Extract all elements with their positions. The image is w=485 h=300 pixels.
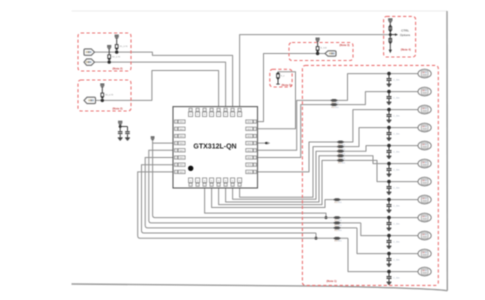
svg-text:GTX312L-QN: GTX312L-QN xyxy=(193,143,236,150)
svg-text:C_10n: C_10n xyxy=(393,80,400,82)
svg-text:C_10n: C_10n xyxy=(393,260,400,262)
svg-text:1: 1 xyxy=(254,136,255,138)
svg-text:SEG: SEG xyxy=(247,136,252,138)
svg-text:R0_4.7K: R0_4.7K xyxy=(105,95,114,97)
svg-text:C_10n: C_10n xyxy=(393,134,400,136)
svg-text:3: 3 xyxy=(175,150,176,152)
svg-text:SEG: SEG xyxy=(247,143,252,145)
svg-text:1: 1 xyxy=(254,150,255,152)
svg-text:3: 3 xyxy=(175,143,176,145)
svg-text:C_10n: C_10n xyxy=(393,242,400,244)
svg-text:R_0: R_0 xyxy=(281,76,286,78)
svg-text:1: 1 xyxy=(254,172,255,174)
svg-text:(Note 1): (Note 1) xyxy=(327,279,337,283)
svg-text:SEG: SEG xyxy=(179,143,184,145)
svg-text:(Note 4): (Note 4) xyxy=(401,48,411,52)
svg-text:C_10n: C_10n xyxy=(393,116,400,118)
svg-text:1: 1 xyxy=(218,185,219,187)
svg-text:1K0: 1K0 xyxy=(335,107,338,109)
svg-text:3: 3 xyxy=(175,129,176,131)
svg-text:C_10n: C_10n xyxy=(393,98,400,100)
svg-text:(Note 3): (Note 3) xyxy=(340,43,350,47)
svg-text:R2_4.7K: R2_4.7K xyxy=(112,56,121,58)
svg-text:SEG: SEG xyxy=(247,165,252,167)
svg-text:SEG: SEG xyxy=(247,129,252,131)
svg-text:1: 1 xyxy=(197,185,198,187)
svg-text:C_10n: C_10n xyxy=(393,224,400,226)
svg-text:2: 2 xyxy=(190,110,191,112)
svg-text:1: 1 xyxy=(254,129,255,131)
svg-text:R_10K: R_10K xyxy=(320,47,327,49)
svg-text:1K0: 1K0 xyxy=(342,163,345,165)
svg-text:SEG: SEG xyxy=(247,122,252,124)
svg-text:1K0: 1K0 xyxy=(338,241,341,243)
svg-text:1K0: 1K0 xyxy=(338,202,341,204)
svg-text:(Note 5): (Note 5) xyxy=(282,83,292,87)
svg-text:R1_4.7K: R1_4.7K xyxy=(120,46,129,48)
svg-text:SEG: SEG xyxy=(179,129,184,131)
svg-text:1: 1 xyxy=(254,143,255,145)
svg-text:SEG: SEG xyxy=(179,136,184,138)
svg-text:1: 1 xyxy=(225,185,226,187)
svg-text:C_10n: C_10n xyxy=(393,170,400,172)
svg-text:1: 1 xyxy=(232,185,233,187)
svg-text:1: 1 xyxy=(211,185,212,187)
svg-text:C_10n: C_10n xyxy=(393,206,400,208)
svg-text:2: 2 xyxy=(218,110,219,112)
svg-text:1: 1 xyxy=(254,122,255,124)
svg-text:1: 1 xyxy=(204,185,205,187)
svg-text:C_10n: C_10n xyxy=(393,188,400,190)
svg-text:SEG: SEG xyxy=(179,158,184,160)
svg-text:2: 2 xyxy=(232,110,233,112)
svg-text:SEG: SEG xyxy=(247,172,252,174)
svg-text:1K0: 1K0 xyxy=(338,230,341,232)
svg-text:1: 1 xyxy=(254,157,255,159)
svg-text:3: 3 xyxy=(175,165,176,167)
svg-text:SEG: SEG xyxy=(179,150,184,152)
svg-text:C_10n: C_10n xyxy=(393,278,400,280)
svg-text:SEG: SEG xyxy=(179,165,184,167)
svg-text:SEG: SEG xyxy=(247,150,252,152)
svg-text:1: 1 xyxy=(254,165,255,167)
svg-text:Options: Options xyxy=(400,33,411,37)
svg-text:SEG: SEG xyxy=(179,122,184,124)
svg-text:3: 3 xyxy=(175,157,176,159)
svg-text:2: 2 xyxy=(239,110,240,112)
svg-text:2: 2 xyxy=(225,110,226,112)
svg-text:2: 2 xyxy=(197,110,198,112)
svg-text:2: 2 xyxy=(211,110,212,112)
svg-text:3: 3 xyxy=(175,122,176,124)
svg-text:1: 1 xyxy=(239,185,240,187)
svg-text:C_10n: C_10n xyxy=(393,152,400,154)
svg-text:2: 2 xyxy=(204,110,205,112)
svg-text:SEG: SEG xyxy=(247,158,252,160)
svg-text:(Note 2): (Note 2) xyxy=(113,106,123,110)
svg-text:SEG: SEG xyxy=(179,172,184,174)
svg-text:(Note 2): (Note 2) xyxy=(113,67,123,71)
svg-text:3: 3 xyxy=(175,136,176,138)
svg-text:1: 1 xyxy=(190,185,191,187)
svg-text:3: 3 xyxy=(175,172,176,174)
